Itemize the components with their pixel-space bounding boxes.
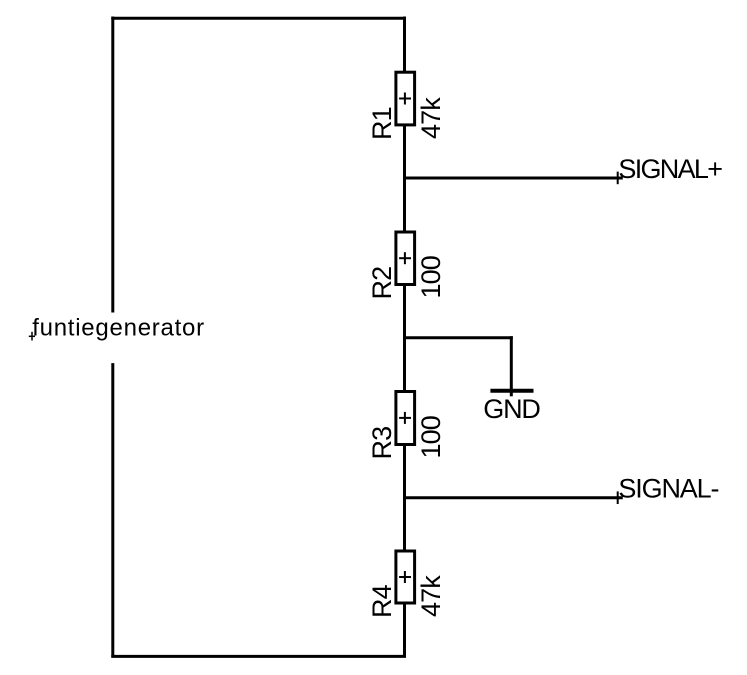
wire: GND branch vertical drop — [510, 336, 513, 396]
wire: bottom horizontal — [111, 655, 406, 658]
wire: top horizontal — [111, 17, 406, 20]
resistor R4 polarity plus — [399, 571, 411, 583]
svg-text:100: 100 — [416, 256, 446, 298]
wire: main vertical, R1 pin 2 to R2 pin 1 — [403, 125, 406, 232]
pin cross at SIGNAL+ terminal — [617, 172, 619, 185]
wire: left vertical lower segment — [111, 363, 114, 657]
resistor R1 polarity plus — [399, 93, 411, 105]
svg-text:47k: 47k — [416, 97, 446, 139]
svg-text:R4: R4 — [367, 584, 397, 618]
svg-text:SIGNAL+: SIGNAL+ — [618, 154, 722, 184]
wire: left vertical upper segment — [111, 17, 114, 313]
resistor R2 polarity plus — [399, 252, 411, 264]
svg-text:funtiegenerator: funtiegenerator — [32, 315, 205, 342]
svg-text:GND: GND — [483, 394, 540, 424]
wire: SIGNAL- horizontal stub — [405, 496, 623, 499]
svg-text:100: 100 — [416, 416, 446, 458]
resistor R3 body — [396, 392, 415, 445]
svg-text:R3: R3 — [367, 427, 397, 460]
wire: main vertical, R2 pin 2 to R3 pin 1 — [403, 285, 406, 392]
wire: GND branch horizontal — [405, 336, 513, 339]
resistor R4 body — [396, 551, 415, 603]
ground symbol bar — [490, 389, 533, 393]
wire: SIGNAL+ horizontal stub — [405, 177, 623, 180]
svg-text:R1: R1 — [367, 107, 397, 140]
svg-text:SIGNAL-: SIGNAL- — [618, 474, 718, 504]
wire: main vertical, R3 pin 2 to R4 pin 1 — [403, 445, 406, 552]
resistor R3 polarity plus — [399, 412, 411, 424]
pin cross at funtiegenerator terminal — [29, 332, 35, 341]
svg-text:47k: 47k — [416, 575, 446, 617]
resistor R1 body — [396, 72, 415, 125]
svg-text:R2: R2 — [367, 267, 397, 300]
resistor R2 body — [396, 232, 415, 285]
pin cross at SIGNAL- terminal — [617, 491, 619, 504]
wire: main vertical, R4 pin 2 to bottom wire — [403, 603, 406, 658]
wire: main vertical, top wire to R1 pin 1 — [403, 17, 406, 73]
